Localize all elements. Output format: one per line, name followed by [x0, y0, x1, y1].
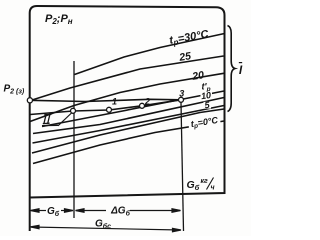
chart frame (rounded box): [30, 6, 225, 231]
horizontal P2(3) level line: [30, 99, 181, 101]
label tp=0C: [188, 114, 222, 131]
node circle on axis P2(3): [27, 98, 32, 103]
line t'p: [42, 91, 224, 127]
svg-text:25: 25: [177, 50, 192, 64]
line 5: [32, 109, 224, 153]
paper background: [0, 0, 251, 236]
svg-text:2: 2: [144, 97, 150, 107]
line tp=30C: [75, 34, 225, 75]
svg-text:3: 3: [179, 88, 184, 98]
line 10: [33, 98, 224, 134]
node circle 2: [140, 103, 145, 108]
label tp=30C: [168, 28, 210, 48]
svg-text:1: 1: [112, 97, 117, 107]
vertical line through point 3: [181, 103, 184, 232]
label II (hand-drawn roman numeral) with underline and leader: [43, 114, 52, 123]
line 25 (from axis point): [31, 56, 224, 101]
node circle 1: [107, 107, 112, 112]
node circle 3: [179, 97, 184, 102]
node circle II start: [71, 108, 76, 113]
dimension Gb arrows: [31, 209, 74, 213]
label 5: [204, 102, 212, 109]
line tp=0C: [33, 121, 224, 164]
label t'p: [200, 82, 214, 91]
label 10: [201, 92, 213, 99]
svg-text:кг: кг: [201, 178, 209, 185]
vertical line at x=74: [73, 61, 75, 218]
dimension dGb arrows: [76, 209, 181, 213]
line 20: [30, 73, 225, 121]
right brace for group I: [228, 26, 236, 112]
svg-text:ч: ч: [211, 185, 215, 192]
unlabeled family line between 10 and 5: [33, 106, 225, 144]
dimension Gbc line with arrows: [31, 225, 182, 232]
curve II polyline: [30, 100, 181, 115]
